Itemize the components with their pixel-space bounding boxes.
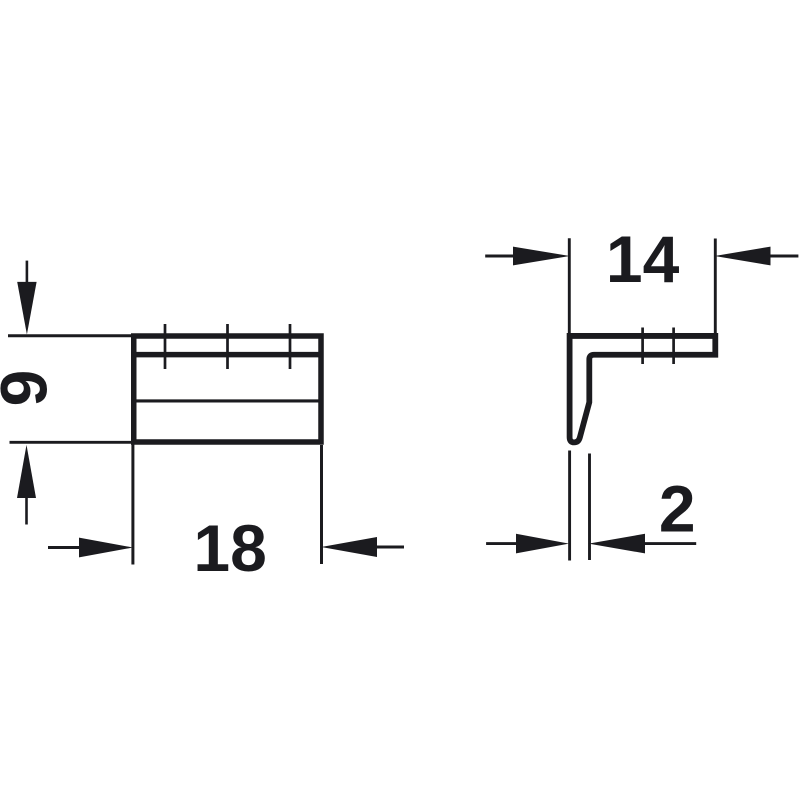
svg-text:18: 18 bbox=[193, 511, 266, 585]
svg-text:9: 9 bbox=[0, 370, 61, 407]
svg-text:2: 2 bbox=[659, 472, 696, 546]
svg-text:14: 14 bbox=[606, 222, 680, 296]
